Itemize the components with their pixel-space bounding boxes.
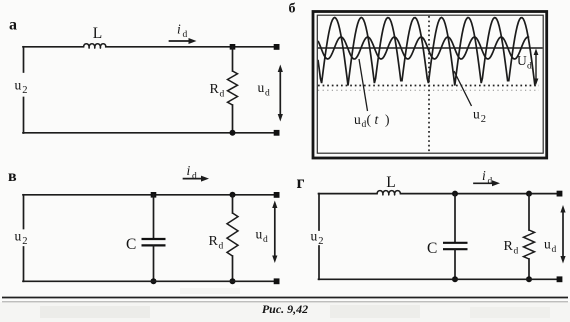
dotted vertical centerline [428, 16, 430, 153]
wire: capacitor bottom lead (panel g) [454, 249, 456, 279]
wire: top left horizontal (panel a) [23, 46, 84, 48]
svg-text:а: а [9, 17, 17, 34]
terminal: top right (panel g) [557, 191, 563, 197]
svg-text:d: d [488, 177, 493, 187]
capacitor C (panel g) [443, 242, 468, 244]
node: capacitor top junction (panel g) [452, 191, 458, 197]
svg-text:L: L [93, 25, 102, 42]
arrow i_d (panel a) [170, 40, 191, 42]
wire: inductor to right (panel g) [401, 193, 560, 195]
svg-text:d: d [265, 89, 270, 99]
svg-text:i: i [187, 163, 191, 178]
svg-text:i: i [177, 22, 181, 37]
svg-text:): ) [385, 112, 390, 127]
dotted horizontal baseline [318, 85, 539, 87]
svg-text:u: u [256, 227, 263, 242]
node: top junction (panel a) [230, 44, 236, 50]
scope zero axis solid line [318, 47, 543, 49]
terminal: bottom right (panel v) [274, 278, 280, 284]
terminal: top right (panel v) [274, 192, 280, 198]
waveform u_d(t) rectified humps [318, 18, 535, 86]
svg-text:d: d [183, 30, 188, 40]
wire: resistor bottom lead (panel g) [528, 259, 530, 279]
paper noise strip (non-labelled decorative) [0, 302, 570, 322]
arrow u_d (panel g) [562, 211, 564, 259]
svg-text:u: u [354, 112, 361, 127]
svg-text:(: ( [367, 112, 372, 127]
arrow Ud (scope) [535, 54, 537, 81]
inductor L (panel g) [377, 191, 401, 195]
wire: bottom horizontal (panel a) [23, 132, 277, 134]
svg-text:d: d [263, 235, 268, 245]
svg-text:d: d [552, 245, 557, 255]
resistor Rd (panel v) [227, 213, 238, 256]
svg-text:u: u [258, 80, 265, 95]
svg-text:L: L [386, 174, 395, 191]
svg-text:2: 2 [481, 114, 486, 125]
svg-text:R: R [504, 239, 514, 254]
terminal: bottom right (panel g) [557, 276, 563, 282]
node: capacitor bottom junction (panel g) [452, 276, 458, 282]
wire: resistor top lead (panel g) [528, 194, 530, 230]
waveform u2 sine [318, 37, 529, 59]
terminal: top right (panel a) [274, 44, 280, 50]
wire: capacitor bottom lead (panel v) [153, 245, 155, 281]
capacitor C (panel v) [142, 238, 166, 240]
svg-text:d: d [192, 172, 197, 182]
node: resistor top junction (panel v) [230, 192, 236, 198]
caption rule [2, 297, 568, 299]
svg-text:C: C [126, 236, 136, 253]
svg-text:C: C [427, 240, 437, 257]
svg-text:R: R [210, 82, 220, 97]
wire: left vertical u2 leg (panel g) [318, 194, 320, 230]
wire: bottom horizontal (panel g) [319, 278, 560, 280]
wire: top left to inductor (panel g) [319, 193, 378, 195]
wire: capacitor top lead (panel v) [153, 195, 155, 239]
resistor Rd (panel a) [228, 71, 238, 105]
svg-text:2: 2 [22, 85, 27, 96]
svg-text:d: d [219, 242, 224, 252]
node: resistor top junction (panel g) [526, 191, 532, 197]
terminal: bottom right (panel a) [274, 130, 280, 136]
arrow u_d (panel v) [274, 206, 276, 258]
node: resistor bottom junction (panel g) [526, 276, 532, 282]
svg-text:в: в [8, 168, 17, 185]
inductor L (panel a) [84, 44, 107, 48]
svg-text:u: u [15, 229, 22, 244]
wire: top horizontal inductor to right (panel a) [106, 46, 277, 48]
svg-text:u: u [473, 107, 480, 122]
svg-text:u: u [311, 229, 318, 244]
svg-text:u: u [15, 78, 22, 93]
svg-text:d: d [527, 62, 532, 72]
wire: resistor top lead (panel v) [232, 195, 234, 213]
oscilloscope inner frame [317, 15, 543, 153]
leader line to u2 [454, 71, 472, 106]
node: bottom junction (panel a) [230, 130, 236, 136]
wire: bottom horizontal (panel v) [23, 280, 277, 282]
svg-text:d: d [220, 90, 225, 100]
wire: top horizontal (panel v) [23, 194, 277, 196]
arrow u_d (panel a) [279, 70, 281, 116]
svg-text:2: 2 [318, 236, 323, 247]
svg-text:d: d [514, 247, 519, 257]
arrow i_d (panel g) [474, 182, 494, 184]
faint second dotted row [318, 89, 539, 91]
wire: capacitor top lead (panel g) [454, 194, 456, 243]
svg-text:U: U [517, 53, 527, 68]
node: capacitor bottom junction (panel v) [151, 278, 157, 284]
svg-text:Рис. 9,42: Рис. 9,42 [262, 302, 308, 316]
wire: resistor bottom lead (panel v) [232, 256, 234, 281]
wire: node to resistor (panel a) [232, 47, 234, 71]
svg-text:R: R [209, 234, 219, 249]
svg-text:б: б [289, 2, 296, 17]
arrow i_d (panel v) [184, 178, 203, 180]
wire: resistor to bottom (panel a) [232, 105, 234, 133]
node: capacitor top junction (panel v) [151, 192, 157, 198]
oscilloscope outer frame [313, 12, 547, 159]
svg-text:2: 2 [22, 236, 27, 247]
svg-text:u: u [544, 237, 551, 252]
svg-text:г: г [297, 172, 305, 192]
svg-text:i: i [482, 168, 486, 183]
leader line to u_d(t) [359, 59, 368, 111]
wire: left vertical u2 leg (panel a) [23, 47, 25, 72]
resistor Rd (panel g) [524, 230, 535, 259]
node: resistor bottom junction (panel v) [230, 278, 236, 284]
wire: left vertical u2 leg (panel v) [23, 195, 25, 229]
